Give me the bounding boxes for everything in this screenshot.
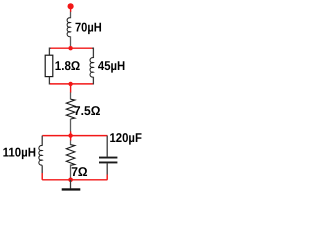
junction (block1 bottom) bbox=[68, 82, 72, 86]
wire (block2 top rail) bbox=[42, 135, 107, 137]
wire (R1 bottom lead) bbox=[49, 77, 50, 84]
resistor 1.8ohm (box) bbox=[45, 55, 53, 76]
node A (input terminal dot) bbox=[68, 3, 74, 9]
wire (R2 to block2 top rail) bbox=[70, 119, 72, 132]
resistor 7ohm (zigzag) bbox=[66, 145, 75, 166]
resistor 7.5ohm (zigzag) bbox=[66, 99, 75, 119]
inductor 110uH bbox=[39, 146, 42, 166]
wire (junction to ground) bbox=[70, 180, 72, 189]
wire (terminal to L1) bbox=[70, 6, 72, 12]
inductor 70uH bbox=[67, 18, 70, 37]
capacitor 120uF bottom lead bbox=[106, 163, 108, 174]
wire (R3 to bottom rail) bbox=[70, 164, 72, 179]
junction (block2 bottom) bbox=[68, 178, 73, 183]
svg-text:120µF: 120µF bbox=[110, 130, 143, 145]
wire (L1 to block1 top rail) bbox=[70, 36, 72, 48]
svg-text:7Ω: 7Ω bbox=[71, 164, 87, 179]
wire (block2 top dot to R3) bbox=[70, 136, 72, 141]
junction (block1 top) bbox=[68, 46, 72, 50]
capacitor 120uF plates bbox=[99, 157, 117, 159]
svg-text:110µH: 110µH bbox=[3, 145, 36, 160]
svg-text:70µH: 70µH bbox=[75, 20, 102, 35]
svg-text:7.5Ω: 7.5Ω bbox=[74, 103, 101, 118]
capacitor 120uF top lead bbox=[106, 136, 108, 157]
ground bbox=[62, 188, 81, 190]
junction (block2 top) bbox=[68, 133, 72, 137]
wire (L2 bottom lead) bbox=[92, 77, 93, 84]
wire (L3 top lead) bbox=[41, 136, 43, 146]
svg-text:45µH: 45µH bbox=[98, 58, 125, 73]
svg-text:1.8Ω: 1.8Ω bbox=[55, 58, 80, 73]
wire (block2 bottom rail) bbox=[42, 179, 107, 181]
wire (block1 top rail) bbox=[50, 47, 93, 49]
wire (L3 bottom lead) bbox=[41, 165, 43, 173]
inductor 45uH bbox=[90, 58, 93, 78]
wire (block1 bottom rail) bbox=[50, 83, 93, 85]
wire (block1 to R2) bbox=[70, 84, 72, 93]
